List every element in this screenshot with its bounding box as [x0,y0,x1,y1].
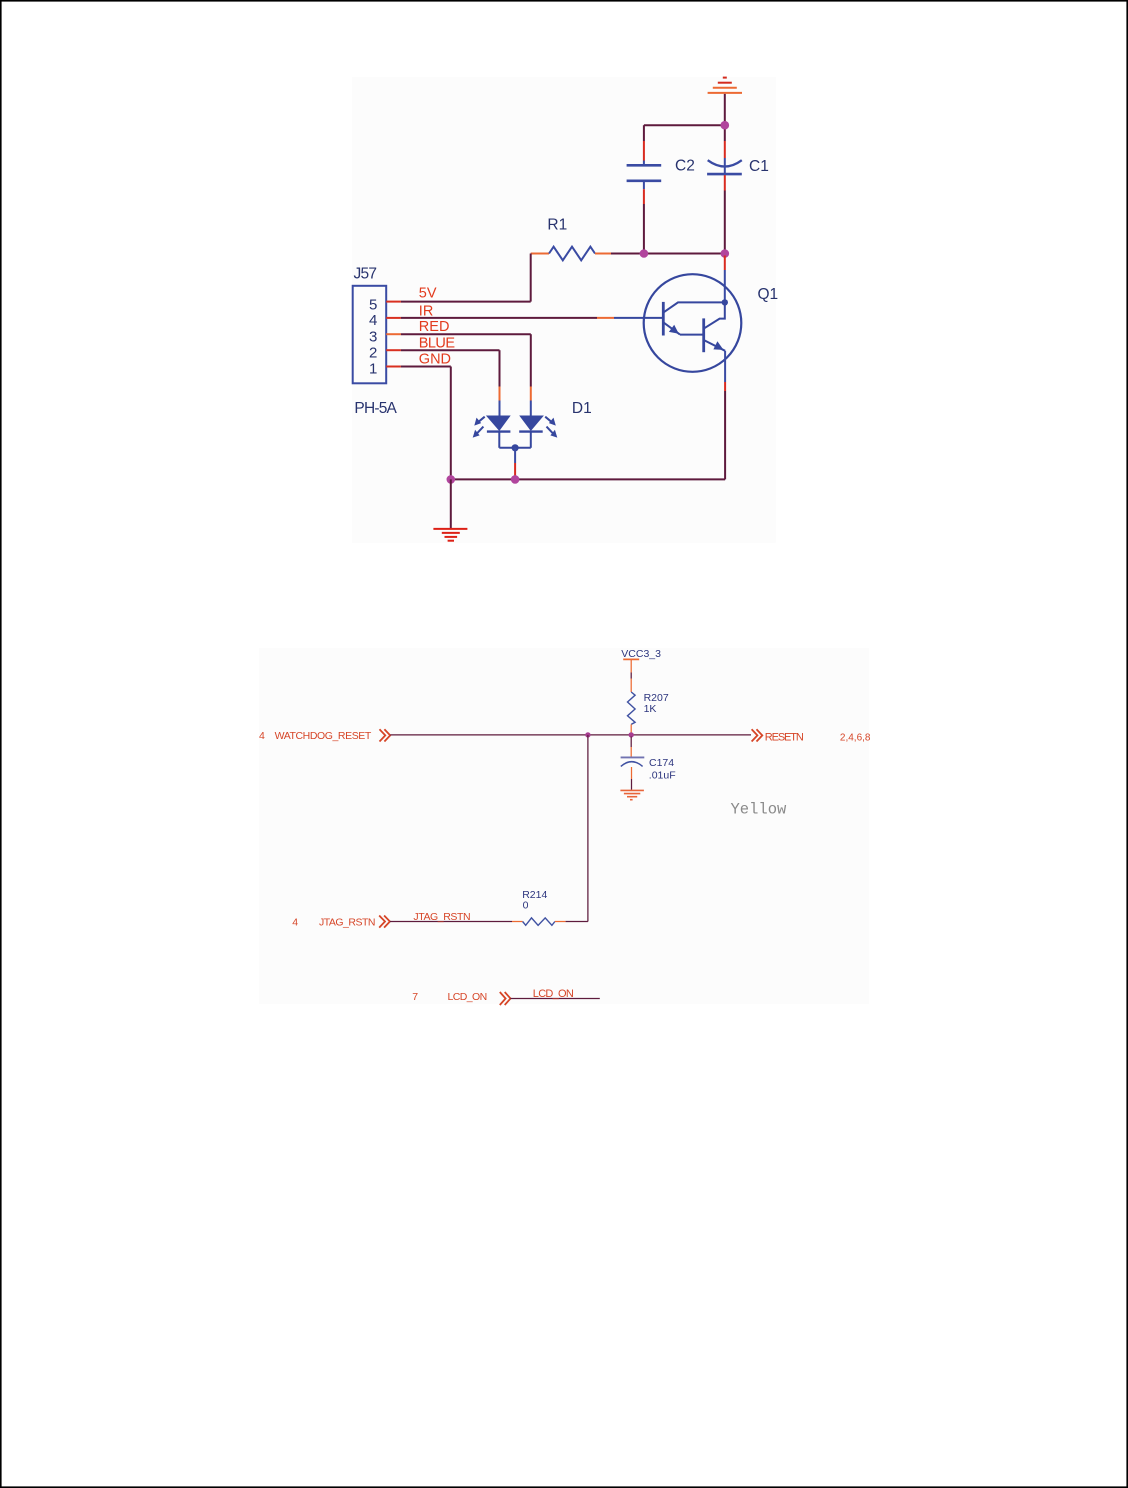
pin 4 stub [386,317,401,319]
svg-text:RED: RED [419,319,450,335]
junction D1/rail [511,475,520,484]
svg-text:4: 4 [292,916,298,928]
svg-text:0: 0 [523,900,529,912]
D1 left emission arrows [476,417,485,435]
capacitor C2 [627,165,662,181]
ground (bottom earth) [433,529,467,541]
junction GND/rail [447,475,456,484]
resistor R207 [628,692,636,724]
wire Q1 emitter down [724,351,726,480]
svg-text:5V: 5V [419,285,437,301]
svg-text:D1: D1 [572,400,592,417]
svg-text:LCD_ON: LCD_ON [533,988,574,1000]
svg-text:2: 2 [369,344,377,361]
pin 1 stub [386,366,401,368]
resistor R214 [512,918,566,925]
Q1a emitter arrowhead [669,325,679,334]
svg-text:LCD_ON: LCD_ON [448,991,488,1003]
Q1b emitter arrowhead [713,341,723,350]
wire IR net to Q1 base [401,317,614,319]
wire node to Q1 collector [724,256,726,303]
wire ground stem [450,479,452,529]
pin 2 stub [386,349,401,351]
D1 junction dot [511,444,518,451]
connector J57 [353,286,387,384]
diode D1 right LED [519,416,544,432]
junction C2/R1 [640,249,649,258]
TOP SCHEMATIC [531,78,778,480]
svg-text:Q1: Q1 [758,286,779,303]
wire D1 cathode join [499,432,531,448]
pin 3 stub [386,333,401,335]
port RESETN [752,729,763,741]
wire junction to JTAG row [587,735,589,922]
svg-text:4: 4 [259,730,265,742]
wire BLUE net [401,350,500,416]
wire C174 to ground [631,767,633,790]
wire R214 to riser [566,921,588,923]
junction top node [721,121,730,130]
wire GND net [401,367,451,480]
svg-text:GND: GND [419,352,451,368]
svg-text:.01uF: .01uF [649,769,676,781]
diode D1 left LED [486,416,511,432]
svg-text:C2: C2 [675,158,695,175]
capacitor C174 [621,756,645,758]
svg-text:VCC3_3: VCC3_3 [621,648,661,660]
wire node to C2 branch [644,124,725,126]
transistor Q1 (darlington pair) [614,274,741,372]
junction R207/C174 [629,732,634,737]
svg-text:5: 5 [369,297,377,314]
wire C2 bottom lead [643,181,645,254]
ground C174 (earth) [620,790,644,799]
junction WATCHDOG/JTAG [585,732,590,737]
svg-text:C1: C1 [749,158,769,175]
pin 5 stub [386,301,401,303]
wire LCD_ON net [510,998,599,1000]
Q1 collector junction dot [722,299,728,305]
svg-text:R1: R1 [547,217,567,234]
wire RED net [401,334,531,416]
svg-text:BLUE: BLUE [419,336,456,352]
wire bottom ground rail [451,478,725,480]
BOTTOM SCHEMATIC [259,648,871,1005]
svg-text:RESETN: RESETN [765,731,804,743]
wire RESETN net [390,734,751,736]
capacitor C1 [707,160,742,174]
wire R207 bottom lead [630,724,632,733]
wire R1 to Q1 collector node [611,253,725,255]
svg-text:Yellow: Yellow [731,801,788,819]
wire JTAG_RSTN net [390,921,512,923]
wire VCC to R207 [630,659,632,692]
svg-text:2,4,6,8: 2,4,6,8 [840,733,871,744]
svg-text:7: 7 [412,991,418,1003]
wire C1 top lead [724,125,726,173]
power ground (top, inverted earth) [708,78,742,93]
junction C1/R1 [721,249,730,258]
svg-text:1K: 1K [644,703,657,715]
wire D1 to ground rail [514,448,516,478]
svg-text:WATCHDOG_RESET: WATCHDOG_RESET [275,730,372,742]
wire 5V net [401,301,531,303]
wire 5V riser [530,254,532,302]
wire C1 bottom lead [724,175,726,253]
svg-text:C174: C174 [649,757,674,769]
wire ground to node [724,94,726,125]
svg-text:3: 3 [369,329,377,346]
wire node to C174 [630,737,632,748]
svg-text:JTAG_RSTN: JTAG_RSTN [319,916,376,928]
svg-text:4: 4 [369,312,377,329]
D1 right emission arrows [545,417,554,435]
wire C2 top lead [643,125,645,165]
svg-text:J57: J57 [354,265,378,282]
svg-text:JTAG_RSTN: JTAG_RSTN [413,911,470,923]
svg-text:1: 1 [369,361,377,378]
resistor R1 [531,247,611,261]
svg-text:PH-5A: PH-5A [354,400,397,417]
